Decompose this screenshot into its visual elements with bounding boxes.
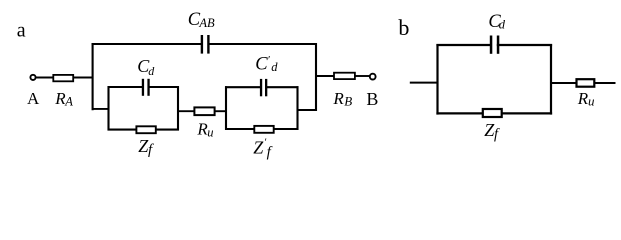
wire top branch left segment xyxy=(92,43,201,45)
svg-text:d: d xyxy=(271,60,278,74)
box b left vertical wire xyxy=(436,44,438,115)
svg-text:′: ′ xyxy=(267,54,270,66)
wire box2 to right node xyxy=(298,109,317,111)
svg-text:R: R xyxy=(577,89,589,108)
box2 right vertical wire xyxy=(296,86,298,130)
svg-text:C: C xyxy=(255,55,268,75)
svg-text:A: A xyxy=(27,89,40,108)
box1 left vertical wire xyxy=(107,86,109,131)
svg-text:u: u xyxy=(207,125,213,139)
svg-text:a: a xyxy=(17,20,26,42)
box2 bottom branch wires xyxy=(225,128,255,130)
node B-side vertical wire xyxy=(315,43,317,111)
wire input to box b xyxy=(410,82,439,84)
resistor Zf (box1) xyxy=(136,126,155,133)
box b bottom branch wires xyxy=(436,112,482,114)
resistor Z'f (box2) xyxy=(254,126,273,133)
svg-text:B: B xyxy=(366,89,378,109)
wire terminal A to RA xyxy=(36,77,54,79)
box1 right vertical wire xyxy=(177,86,179,131)
wire top branch right segment xyxy=(209,43,317,45)
box2 top branch wires xyxy=(225,86,260,88)
capacitor Cd (part b) xyxy=(490,36,500,54)
box b top branch wires xyxy=(436,44,490,46)
terminal A xyxy=(30,75,35,80)
resistor RB xyxy=(334,73,355,79)
svg-text:AB: AB xyxy=(198,16,215,30)
svg-text:f: f xyxy=(148,142,154,158)
wire box1 to Ru xyxy=(178,110,195,112)
wire left node to box1 xyxy=(93,108,110,110)
resistor RA xyxy=(53,75,73,81)
node A-side vertical wire xyxy=(92,43,94,110)
resistor Zf (part b) xyxy=(483,109,502,117)
svg-text:f: f xyxy=(494,126,500,142)
box1 top branch wires xyxy=(108,86,143,88)
box b right vertical wire xyxy=(550,44,552,115)
box1 bottom branch wires xyxy=(108,129,138,131)
resistor Ru (part b) xyxy=(577,79,595,87)
wire box b to Ru xyxy=(551,82,577,84)
capacitor CAB xyxy=(201,35,210,54)
wire right node to RB xyxy=(316,75,335,77)
capacitor C'd (box2) xyxy=(260,79,267,96)
wire Ru output xyxy=(594,82,615,84)
svg-text:b: b xyxy=(398,15,409,40)
terminal B xyxy=(370,74,376,80)
svg-text:B: B xyxy=(344,94,352,109)
resistor Ru (middle) xyxy=(194,107,214,115)
svg-text:R: R xyxy=(332,89,344,108)
svg-text:f: f xyxy=(267,144,273,160)
svg-text:d: d xyxy=(499,18,506,32)
svg-text:Z: Z xyxy=(253,138,264,158)
svg-text:u: u xyxy=(588,94,595,109)
wire RB to terminal B xyxy=(355,75,370,77)
capacitor Cd (box1) xyxy=(142,79,150,96)
svg-text:A: A xyxy=(64,95,73,109)
wire RA to node left vertical xyxy=(73,77,93,79)
svg-text:d: d xyxy=(148,64,155,78)
wire Ru to box2 xyxy=(215,110,227,112)
box2 left vertical wire xyxy=(225,86,227,130)
